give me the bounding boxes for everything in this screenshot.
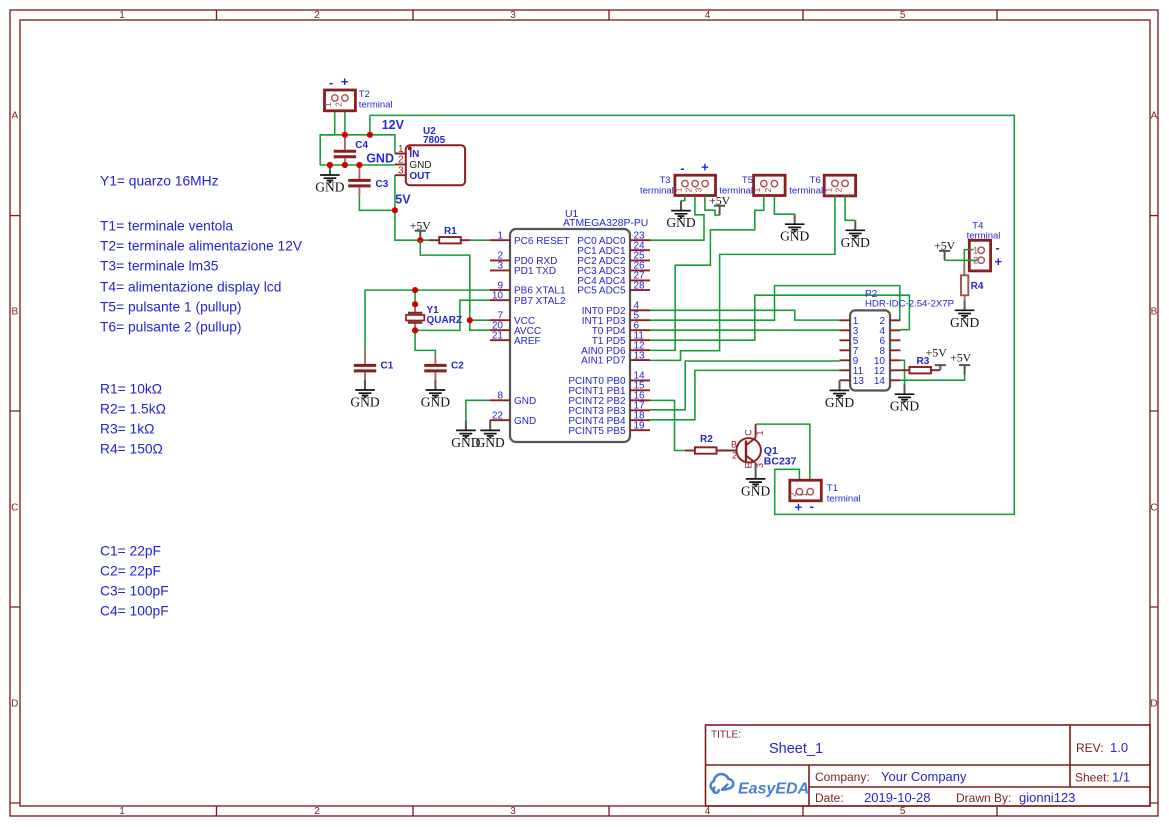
svg-text:T5: T5 [742, 175, 753, 186]
svg-text:Company:: Company: [815, 770, 870, 784]
svg-text:PCINT5 PB5: PCINT5 PB5 [568, 426, 626, 437]
wire INT1 to P2 pin2 [650, 286, 900, 321]
svg-text:1: 1 [119, 806, 125, 817]
svg-text:T3: T3 [660, 175, 671, 186]
svg-text:13: 13 [853, 376, 865, 387]
lead R4 [963, 265, 965, 300]
wire T2 pin1 to GND rail [320, 111, 335, 165]
wire PCINT2 to R2 [650, 400, 685, 450]
wire R1 to U1 pin1 [470, 239, 490, 241]
svg-text:3: 3 [398, 166, 404, 177]
svg-text:+: + [341, 74, 349, 89]
capacitor C3 [348, 179, 389, 190]
svg-text:Sheet:: Sheet: [1075, 771, 1110, 785]
svg-text:GND: GND [514, 416, 536, 427]
svg-text:C3= 100pF: C3= 100pF [100, 584, 169, 599]
svg-text:-: - [995, 240, 999, 255]
svg-text:A: A [1151, 111, 1158, 122]
svg-text:1: 1 [497, 230, 503, 241]
svg-text:5V: 5V [395, 192, 411, 206]
wire T5 pin1 to AIN0 [650, 196, 764, 351]
svg-text:T5= pulsante 1 (pullup): T5= pulsante 1 (pullup) [100, 300, 242, 315]
terminal T6 [823, 175, 855, 196]
svg-text:TITLE:: TITLE: [711, 730, 741, 741]
resistor R3 [909, 356, 931, 373]
ground (U1 pin8) [451, 420, 480, 450]
svg-text:B: B [731, 440, 737, 450]
wire T2 pin2 down [344, 111, 346, 135]
wire +5V to AVCC [420, 240, 490, 330]
power flag +5V (R3) [926, 346, 948, 370]
svg-text:GND: GND [514, 396, 536, 407]
svg-text:1: 1 [752, 187, 762, 192]
lead C3 [358, 165, 360, 196]
svg-text:R4: R4 [971, 281, 984, 292]
svg-text:2: 2 [763, 187, 773, 192]
terminal T3 [673, 175, 715, 195]
svg-text:12V: 12V [382, 118, 405, 132]
svg-text:R1: R1 [444, 226, 457, 237]
junction VCC branch [467, 317, 473, 323]
wire +5V to VCC [470, 319, 490, 321]
svg-text:5: 5 [900, 10, 906, 21]
svg-text:2: 2 [314, 10, 320, 21]
svg-text:PC5 ADC5: PC5 ADC5 [577, 286, 626, 297]
wire T3 pin3 to +5V [705, 196, 720, 215]
svg-text:C4= 100pF: C4= 100pF [100, 604, 169, 619]
ground (U1 pin22) [476, 420, 505, 450]
svg-text:GND: GND [890, 399, 919, 414]
junction 5V node [392, 207, 398, 213]
svg-text:21: 21 [492, 330, 504, 341]
svg-text:EasyEDA: EasyEDA [738, 781, 809, 798]
svg-text:+5V: +5V [926, 346, 948, 360]
svg-text:C1: C1 [381, 361, 394, 372]
wire T3 pin2 to PC0 [650, 196, 704, 240]
svg-text:10: 10 [492, 290, 504, 301]
wire P2 pin14 to +5V [900, 375, 964, 381]
wire T5 pin2 to gnd [774, 196, 794, 214]
svg-text:2: 2 [334, 102, 344, 107]
ground (P2 pin10) [890, 384, 919, 414]
svg-text:T6= pulsante 2 (pullup): T6= pulsante 2 (pullup) [100, 320, 242, 335]
pin R2 left lead [685, 450, 695, 452]
ground (P2 pin13) [825, 380, 854, 410]
ground (Q1 emitter) [741, 469, 770, 499]
svg-text:R2= 1.5kΩ: R2= 1.5kΩ [100, 402, 166, 417]
svg-text:R2: R2 [700, 434, 713, 445]
terminal T1 [788, 480, 821, 501]
svg-text:+5V: +5V [950, 351, 972, 365]
wire Q1 collector to T1 [756, 424, 810, 480]
svg-text:E: E [744, 462, 754, 468]
svg-text:1.0: 1.0 [1110, 740, 1128, 755]
svg-text:-: - [680, 161, 684, 176]
svg-text:1: 1 [398, 144, 404, 155]
wire T1 to P2 pin4 [650, 295, 909, 340]
svg-text:T3= terminale lm35: T3= terminale lm35 [100, 259, 219, 274]
svg-text:IN: IN [409, 149, 419, 160]
wire U2 OUT to R1 [395, 175, 430, 240]
capacitor C2 [424, 361, 464, 372]
wire XTAL1 net [365, 290, 490, 350]
ground (T6) [841, 220, 870, 250]
junction 12V riser [367, 132, 373, 138]
svg-text:1: 1 [323, 102, 333, 107]
svg-text:1: 1 [823, 187, 833, 192]
power flag +5V (P2 pin14) [950, 351, 972, 375]
lead U1 pin22 gnd [489, 419, 491, 421]
svg-text:T1= terminale ventola: T1= terminale ventola [100, 219, 233, 234]
svg-text:R1= 10kΩ: R1= 10kΩ [100, 382, 162, 397]
lead C1 [364, 350, 366, 380]
junction 12V/C4 [342, 132, 348, 138]
svg-text:+: + [995, 254, 1003, 269]
svg-text:2: 2 [732, 451, 737, 461]
svg-text:+5V: +5V [410, 219, 432, 233]
svg-text:GND: GND [825, 395, 854, 410]
svg-text:C: C [744, 429, 754, 436]
svg-text:C2= 22pF: C2= 22pF [100, 564, 161, 579]
wire T6 pin1 to AIN1 [650, 196, 835, 360]
svg-text:R3= 1kΩ: R3= 1kΩ [100, 422, 154, 437]
svg-text:7805: 7805 [423, 135, 446, 146]
wire GND rail under C4 [320, 164, 395, 166]
svg-text:GND: GND [741, 483, 770, 498]
svg-text:C2: C2 [451, 361, 464, 372]
svg-text:terminal: terminal [640, 186, 674, 197]
svg-text:2: 2 [684, 187, 694, 192]
junction +5V/R1 [417, 237, 423, 243]
capacitor C1 [354, 361, 394, 372]
svg-text:D: D [1150, 699, 1157, 710]
capacitor C4 [334, 140, 369, 157]
junction Y1 pin1 [412, 301, 418, 307]
svg-text:3: 3 [694, 187, 704, 192]
svg-text:3: 3 [510, 10, 516, 21]
svg-text:terminal: terminal [359, 100, 393, 111]
svg-text:3: 3 [497, 261, 503, 272]
ground (T3) [666, 201, 695, 231]
wire T3 pin1 to gnd [681, 196, 685, 201]
IC U1 ATMEGA328P-PU [490, 209, 650, 442]
svg-text:gionni123: gionni123 [1019, 790, 1075, 805]
svg-text:GND: GND [780, 229, 809, 244]
svg-text:5: 5 [900, 806, 906, 817]
connector P2 HDR-IDC-2.54-2X7P [840, 289, 955, 391]
lead Q1 emitter [755, 465, 757, 469]
svg-text:19: 19 [634, 420, 646, 431]
lead C2 [434, 355, 436, 381]
svg-text:1: 1 [799, 492, 809, 497]
wire Y1 top link [414, 290, 416, 304]
wire P2 pin10 to gnd [900, 360, 904, 384]
wire PCINT3 to P2 pin9 [650, 361, 840, 410]
svg-text:4: 4 [705, 10, 711, 21]
svg-text:C: C [1150, 503, 1157, 514]
terminal T2 [323, 90, 355, 111]
svg-text:B: B [1151, 307, 1158, 318]
wire 12V rail to U2 IN [320, 135, 395, 154]
svg-text:C1= 22pF: C1= 22pF [100, 544, 161, 559]
wire XTAL2 net [415, 300, 490, 330]
svg-text:GND: GND [366, 152, 394, 166]
wire INT0 to P2 pin1 [650, 310, 840, 320]
svg-text:B: B [11, 307, 18, 318]
wire T6 pin2 to gnd [845, 196, 855, 220]
svg-text:+5V: +5V [934, 239, 956, 253]
svg-text:GND: GND [409, 160, 431, 171]
ground (under T2) [315, 165, 344, 195]
svg-text:OUT: OUT [409, 171, 430, 182]
wire +5V to T4 pin2 [945, 259, 978, 261]
svg-text:Y1= quarzo 16MHz: Y1= quarzo 16MHz [100, 174, 219, 189]
pin R3 leads [900, 369, 940, 371]
power flag +5V (T3) [709, 194, 731, 216]
lead Y1 [414, 304, 416, 330]
svg-text:REV:: REV: [1076, 741, 1104, 755]
svg-text:BC237: BC237 [764, 456, 797, 468]
svg-text:1: 1 [673, 187, 683, 192]
wire to R1 [425, 239, 430, 241]
svg-text:2019-10-28: 2019-10-28 [864, 790, 931, 805]
svg-text:HDR-IDC-2.54-2X7P: HDR-IDC-2.54-2X7P [865, 298, 954, 309]
svg-text:T1: T1 [827, 483, 838, 494]
ground (C1) [350, 380, 379, 410]
transistor Q1 BC237 [731, 424, 797, 468]
svg-text:+: + [701, 160, 709, 175]
svg-text:+: + [795, 500, 803, 515]
power flag +5V (T4) [934, 239, 956, 261]
wire T4 pin1 to R4 [964, 250, 974, 265]
ground (R4) [950, 300, 979, 330]
resistor R4 [961, 275, 968, 295]
svg-text:T2= terminale alimentazione 12: T2= terminale alimentazione 12V [100, 239, 303, 254]
svg-text:+5V: +5V [709, 194, 731, 208]
svg-text:2: 2 [834, 187, 844, 192]
junction Y1 top [412, 287, 418, 293]
svg-text:GND: GND [350, 395, 379, 410]
EasyEDA logo [711, 774, 810, 797]
svg-text:1/1: 1/1 [1112, 770, 1130, 785]
svg-text:2: 2 [314, 806, 320, 817]
svg-text:2: 2 [788, 492, 798, 497]
svg-text:A: A [11, 111, 18, 122]
wire U1 pin8 GND [466, 400, 490, 420]
svg-text:C: C [11, 503, 18, 514]
junction gnd rail B [342, 162, 348, 168]
svg-text:AIN1 PD7: AIN1 PD7 [581, 356, 626, 367]
svg-text:AREF: AREF [514, 336, 541, 347]
svg-text:GND: GND [841, 235, 870, 250]
svg-text:Your Company: Your Company [881, 769, 967, 784]
svg-text:GND: GND [476, 435, 505, 450]
svg-text:terminal: terminal [789, 186, 823, 197]
svg-text:Sheet_1: Sheet_1 [769, 741, 823, 757]
lead R2 right to Q1 base [717, 450, 747, 452]
svg-text:1: 1 [119, 10, 125, 21]
junction gnd rail A [327, 162, 333, 168]
svg-text:28: 28 [634, 280, 646, 291]
svg-text:C4: C4 [355, 140, 368, 151]
terminal T5 [752, 175, 785, 195]
svg-text:GND: GND [315, 180, 344, 195]
crystal Y1 [406, 305, 462, 326]
svg-text:C3: C3 [376, 179, 389, 190]
ground (T5) [780, 214, 809, 244]
svg-text:8: 8 [497, 391, 503, 402]
svg-text:PD1 TXD: PD1 TXD [514, 266, 556, 277]
svg-text:terminal: terminal [827, 494, 861, 505]
annotation notes [100, 174, 303, 619]
svg-text:PC6 RESET: PC6 RESET [514, 236, 570, 247]
svg-text:T6: T6 [810, 175, 821, 186]
svg-text:PB7 XTAL2: PB7 XTAL2 [514, 296, 566, 307]
resistor R1 [439, 226, 461, 243]
junction Y1 bottom [412, 327, 418, 333]
voltage regulator U2 7805 [395, 126, 465, 185]
svg-text:13: 13 [634, 350, 646, 361]
wire C3 bottom to 5V node [359, 196, 395, 210]
svg-text:3: 3 [510, 806, 516, 817]
wire 12V long rail to right side [370, 115, 1014, 514]
svg-text:1: 1 [755, 430, 765, 435]
pin R1 leads [430, 239, 470, 241]
svg-text:1: 1 [973, 246, 978, 256]
resistor R2 [695, 434, 717, 454]
svg-text:T4= alimentazione display lcd: T4= alimentazione display lcd [100, 280, 281, 295]
svg-text:D: D [11, 699, 18, 710]
svg-text:ATMEGA328P-PU: ATMEGA328P-PU [563, 218, 648, 229]
svg-text:T2: T2 [359, 89, 370, 100]
svg-text:GND: GND [950, 315, 979, 330]
svg-text:GND: GND [666, 215, 695, 230]
power flag +5V (R1 node) [410, 219, 432, 241]
lead C4 [344, 135, 346, 165]
wire 12V riser [369, 115, 371, 134]
svg-text:4: 4 [705, 806, 711, 817]
svg-text:GND: GND [421, 395, 450, 410]
svg-text:-: - [329, 75, 333, 90]
terminal T4 [969, 240, 990, 271]
wire Y1 bottom to C2 [415, 330, 435, 354]
svg-text:R4= 150Ω: R4= 150Ω [100, 442, 163, 457]
wire T0 to P2 pin3 [650, 329, 840, 331]
svg-text:QUARZ: QUARZ [427, 315, 463, 326]
svg-text:14: 14 [874, 376, 886, 387]
svg-text:22: 22 [492, 410, 504, 421]
ground (C2) [421, 380, 450, 410]
junction gnd rail C [356, 162, 362, 168]
svg-text:-: - [810, 499, 814, 514]
wire PCINT4 to P2 pin11 [650, 370, 840, 419]
svg-text:Drawn By:: Drawn By: [956, 791, 1011, 805]
svg-text:2: 2 [398, 155, 404, 166]
svg-text:Date:: Date: [815, 791, 844, 805]
